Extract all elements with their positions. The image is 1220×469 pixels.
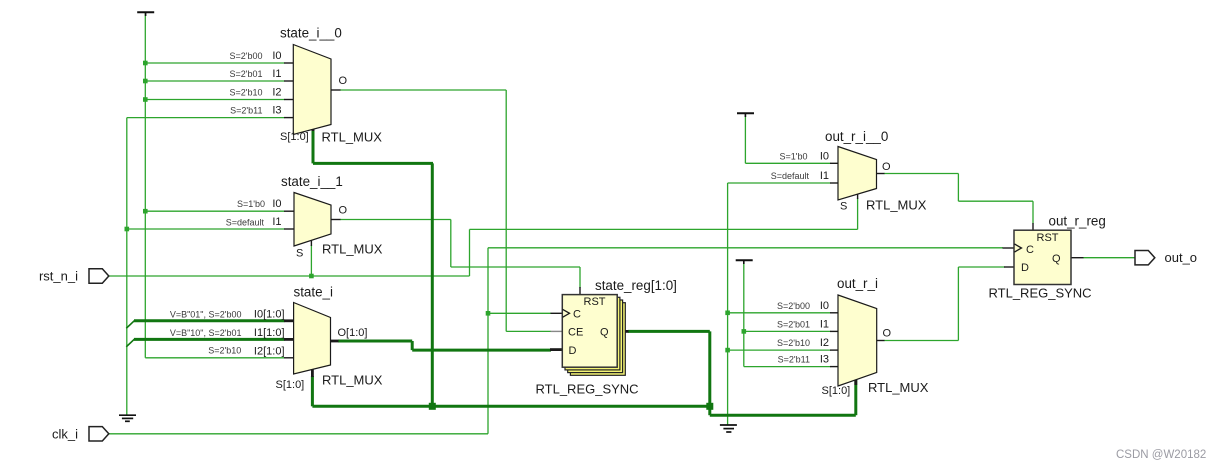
svg-text:S=2'b11: S=2'b11: [230, 106, 262, 116]
svg-text:I1[1:0]: I1[1:0]: [254, 327, 285, 339]
svg-text:RTL_MUX: RTL_MUX: [322, 242, 383, 257]
svg-text:S=default: S=default: [226, 218, 265, 228]
svg-text:S=default: S=default: [771, 171, 810, 181]
svg-text:out_o: out_o: [1165, 250, 1198, 265]
svg-text:S=2'b00: S=2'b00: [777, 301, 810, 311]
svg-text:S=1'b0: S=1'b0: [780, 151, 808, 161]
svg-text:S=2'b00: S=2'b00: [230, 51, 263, 61]
svg-text:I3: I3: [272, 105, 281, 117]
svg-text:Q: Q: [600, 327, 609, 339]
svg-text:I1: I1: [272, 68, 281, 80]
svg-text:Q: Q: [1052, 253, 1061, 265]
svg-text:S=2'b10: S=2'b10: [230, 88, 263, 98]
svg-text:I1: I1: [820, 318, 829, 330]
svg-text:RTL_REG_SYNC: RTL_REG_SYNC: [536, 382, 639, 397]
svg-text:S: S: [296, 248, 303, 260]
svg-text:C: C: [1026, 244, 1034, 256]
svg-text:I2[1:0]: I2[1:0]: [254, 345, 285, 357]
svg-text:state_i__1: state_i__1: [281, 174, 343, 189]
svg-text:I0: I0: [820, 300, 829, 312]
svg-text:state_reg[1:0]: state_reg[1:0]: [595, 278, 677, 293]
svg-text:RTL_REG_SYNC: RTL_REG_SYNC: [989, 286, 1092, 301]
svg-text:S: S: [840, 201, 847, 213]
svg-text:RST: RST: [1037, 232, 1059, 244]
svg-text:RTL_MUX: RTL_MUX: [322, 130, 383, 145]
svg-text:I0: I0: [272, 50, 281, 62]
svg-text:state_i: state_i: [294, 285, 333, 300]
svg-text:S[1:0]: S[1:0]: [822, 385, 851, 397]
svg-text:D: D: [569, 345, 577, 357]
svg-text:I1: I1: [272, 216, 281, 228]
svg-text:I0[1:0]: I0[1:0]: [254, 308, 285, 320]
svg-text:RTL_MUX: RTL_MUX: [322, 373, 383, 388]
svg-text:I2: I2: [272, 87, 281, 99]
svg-text:I1: I1: [820, 170, 829, 182]
svg-text:S=1'b0: S=1'b0: [237, 199, 265, 209]
svg-text:CE: CE: [568, 327, 583, 339]
svg-text:S[1:0]: S[1:0]: [280, 131, 309, 143]
svg-text:D: D: [1021, 262, 1029, 274]
svg-text:RST: RST: [584, 296, 606, 308]
svg-text:S=2'b11: S=2'b11: [778, 355, 810, 365]
svg-text:RTL_MUX: RTL_MUX: [868, 380, 929, 395]
svg-text:O: O: [339, 75, 348, 87]
svg-text:S[1:0]: S[1:0]: [276, 379, 305, 391]
svg-text:RTL_MUX: RTL_MUX: [866, 198, 927, 213]
svg-text:out_r_i: out_r_i: [837, 276, 878, 291]
svg-text:out_r_reg: out_r_reg: [1049, 214, 1106, 229]
svg-text:O: O: [339, 205, 348, 217]
svg-text:state_i__0: state_i__0: [280, 26, 342, 41]
svg-text:O: O: [883, 328, 892, 340]
svg-text:rst_n_i: rst_n_i: [39, 269, 78, 284]
svg-text:I0: I0: [272, 198, 281, 210]
svg-text:I2: I2: [820, 337, 829, 349]
svg-text:I3: I3: [820, 354, 829, 366]
svg-text:C: C: [573, 309, 581, 321]
svg-text:V=B"01", S=2'b00: V=B"01", S=2'b00: [170, 309, 242, 319]
svg-text:V=B"10", S=2'b01: V=B"10", S=2'b01: [170, 328, 242, 338]
svg-text:S=2'b10: S=2'b10: [208, 345, 241, 355]
svg-text:clk_i: clk_i: [52, 426, 78, 441]
svg-text:S=2'b01: S=2'b01: [777, 319, 810, 329]
svg-text:S=2'b01: S=2'b01: [230, 69, 263, 79]
svg-text:CSDN @W20182: CSDN @W20182: [1116, 449, 1206, 461]
svg-text:O: O: [882, 161, 891, 173]
svg-text:out_r_i__0: out_r_i__0: [825, 129, 888, 144]
svg-text:I0: I0: [820, 150, 829, 162]
svg-text:O[1:0]: O[1:0]: [338, 327, 368, 339]
svg-text:S=2'b10: S=2'b10: [777, 338, 810, 348]
